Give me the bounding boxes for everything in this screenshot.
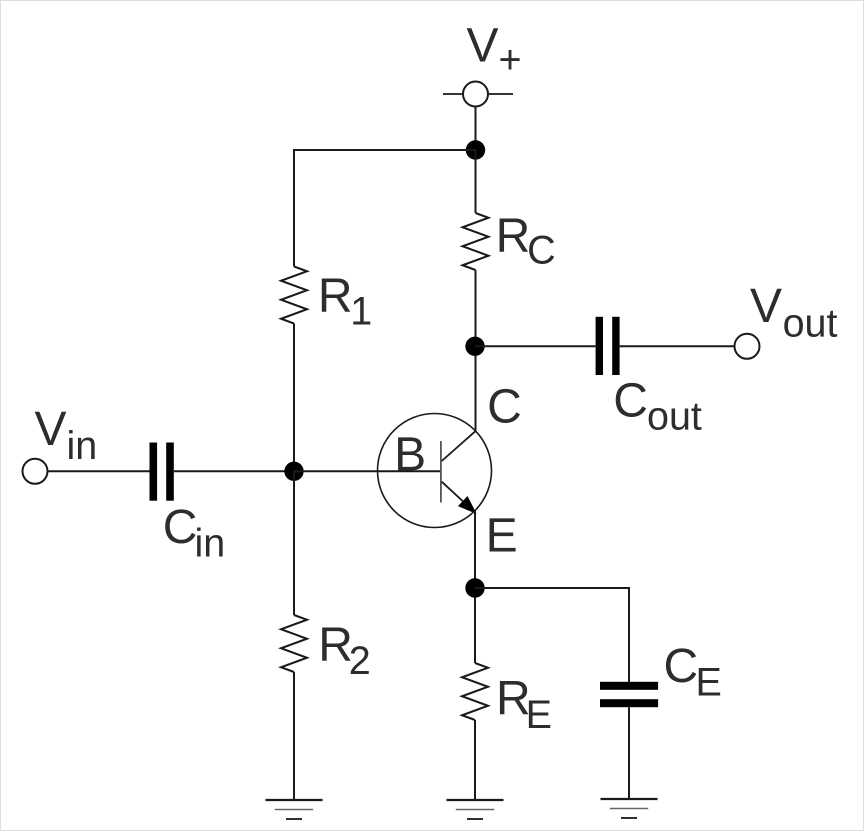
resistor R2: [281, 615, 307, 672]
wire RE to ground: [474, 720, 476, 800]
terminal Vin: [23, 459, 48, 484]
wire RC to collector: [475, 270, 477, 431]
wire supply stub: [475, 107, 477, 151]
svg-text:R: R: [496, 210, 531, 263]
supply terminal V+: [443, 82, 513, 107]
svg-text:V: V: [467, 19, 499, 72]
wire emitter down: [474, 511, 476, 663]
label Vout: [750, 280, 838, 346]
wire Cout to Vout: [620, 345, 734, 347]
svg-text:C: C: [664, 640, 699, 693]
label Vin: [35, 403, 98, 468]
svg-text:in: in: [67, 424, 98, 468]
label Cout: [613, 374, 702, 438]
terminal Vout: [735, 334, 760, 359]
label Cin: [163, 501, 226, 566]
capacitor CE: [600, 682, 658, 707]
svg-text:E: E: [696, 660, 722, 704]
svg-text:1: 1: [350, 290, 372, 334]
wire base node to transistor: [294, 470, 440, 472]
svg-text:2: 2: [349, 639, 371, 683]
ground G3: [601, 799, 658, 818]
svg-text:R: R: [318, 619, 353, 672]
svg-text:in: in: [195, 522, 226, 566]
label RE: [496, 673, 552, 738]
node base junction: [284, 462, 303, 481]
wire base node to R2: [293, 471, 295, 615]
node collector junction: [465, 337, 484, 356]
wire top rail: [294, 149, 476, 151]
wire Vin to Cin: [48, 470, 150, 472]
capacitor Cin: [150, 443, 174, 501]
wire collector to Cout: [475, 345, 596, 347]
svg-text:+: +: [499, 38, 522, 82]
wire CE to ground: [628, 707, 630, 799]
svg-text:V: V: [35, 403, 67, 456]
node supply junction: [466, 140, 485, 159]
wire CE drop: [628, 587, 630, 682]
svg-text:E: E: [526, 693, 552, 737]
label RC: [496, 210, 556, 273]
transistor Q1 circle: [378, 414, 492, 528]
svg-text:R: R: [318, 270, 353, 323]
svg-text:out: out: [783, 302, 838, 346]
wire Cin to base node: [174, 470, 294, 472]
ground G1: [266, 800, 323, 819]
transistor Q1 base bar: [440, 441, 442, 503]
svg-text:E: E: [486, 510, 518, 563]
transistor Q1 emitter lead: [442, 482, 475, 512]
ground G2: [447, 800, 504, 819]
svg-text:V: V: [750, 280, 782, 333]
wire rail to R1: [293, 149, 295, 267]
resistor R1: [281, 267, 307, 324]
svg-text:C: C: [487, 380, 522, 433]
transistor Q1 emitter arrow: [460, 498, 475, 512]
label R2: [318, 619, 370, 683]
svg-text:C: C: [613, 374, 648, 427]
transistor Q1 collector lead: [442, 431, 476, 461]
wire RC from junction: [475, 150, 477, 213]
svg-text:out: out: [647, 394, 702, 438]
resistor RE: [462, 663, 488, 720]
svg-text:B: B: [394, 428, 426, 481]
svg-text:C: C: [527, 229, 556, 273]
wire emitter to CE: [475, 587, 629, 589]
resistor RC: [463, 213, 489, 270]
label R1: [318, 270, 372, 334]
node emitter junction: [465, 578, 484, 597]
capacitor Cout: [596, 317, 620, 375]
label CE: [664, 640, 722, 704]
label V+: [467, 19, 522, 82]
wire R2 to ground: [293, 672, 295, 800]
wire R1 to base node: [293, 324, 295, 472]
svg-text:C: C: [163, 501, 198, 554]
